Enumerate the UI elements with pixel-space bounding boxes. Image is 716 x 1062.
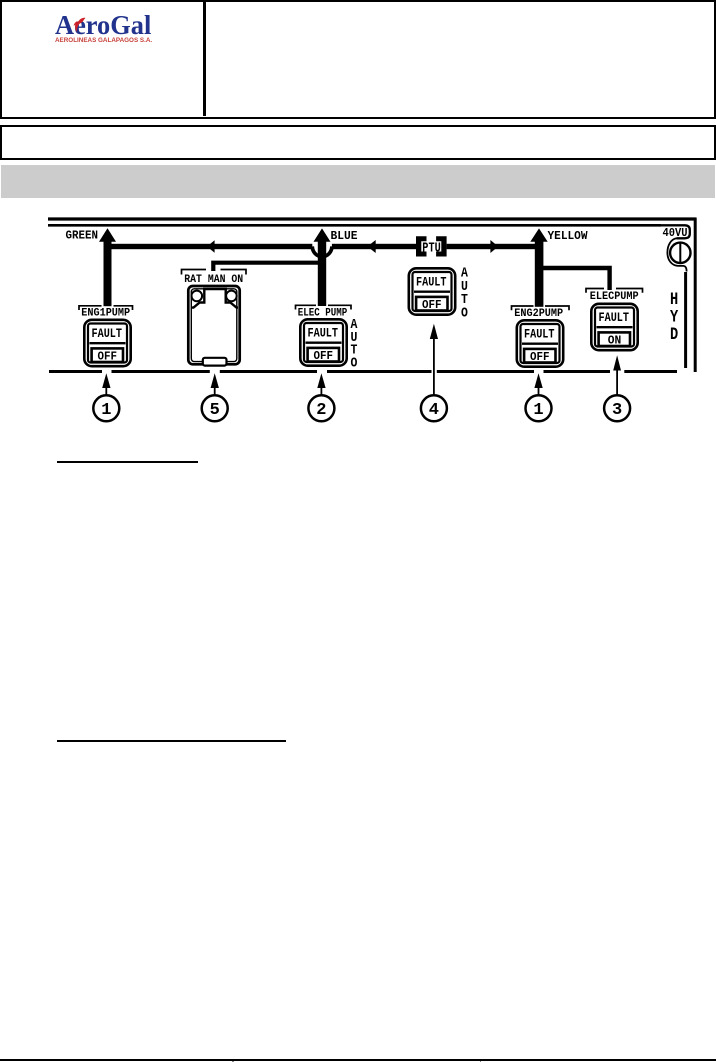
screw slot bbox=[679, 243, 681, 263]
RAT MAN ON label tag bbox=[182, 270, 247, 275]
screw outer ring bbox=[667, 238, 686, 271]
panel right border bbox=[694, 218, 697, 373]
underline heading 1 (blank) bbox=[57, 461, 199, 463]
svg-text:2: 2 bbox=[316, 401, 326, 420]
svg-text:OFF: OFF bbox=[314, 349, 334, 363]
callout arrow 2 (ELEC PUMP) bbox=[317, 373, 325, 388]
svg-text:PTU: PTU bbox=[422, 241, 441, 256]
svg-text:O: O bbox=[351, 356, 358, 371]
callout arrow 4 (PTU) bbox=[430, 324, 438, 339]
RAT guard screw left bbox=[192, 291, 203, 302]
svg-text:OFF: OFF bbox=[98, 349, 118, 363]
pushbutton ENG2PUMP bbox=[517, 320, 563, 366]
svg-text:YELLOW: YELLOW bbox=[548, 229, 589, 243]
svg-text:3: 3 bbox=[612, 401, 622, 420]
svg-text:4: 4 bbox=[429, 401, 439, 420]
svg-text:OFF: OFF bbox=[422, 298, 442, 312]
main horizontal wire segment PTU-yellow bbox=[447, 244, 539, 249]
svg-text:40VU: 40VU bbox=[663, 226, 688, 240]
svg-text:ELEC PUMP: ELEC PUMP bbox=[298, 308, 348, 320]
svg-text:D: D bbox=[670, 325, 678, 345]
header table outer border bbox=[0, 0, 716, 119]
underline heading 2 (blank) bbox=[57, 740, 286, 742]
callout circle 1 bbox=[93, 395, 119, 421]
callout arrow 5 (RAT) bbox=[211, 373, 219, 388]
gray bar bbox=[1, 165, 715, 198]
svg-text:FAULT: FAULT bbox=[308, 325, 339, 340]
panel top border inner line bbox=[48, 224, 661, 227]
arrowhead pointing right (PTU right) bbox=[490, 240, 498, 253]
callout arrow 1 (ENG1PUMP) bbox=[102, 373, 110, 388]
ENG1PUMP label tag bbox=[79, 306, 133, 310]
arrowhead pointing left (PTU left) bbox=[367, 240, 375, 253]
header table column divider bbox=[203, 2, 206, 116]
svg-text:FAULT: FAULT bbox=[416, 274, 447, 289]
svg-text:FAULT: FAULT bbox=[599, 310, 630, 325]
svg-text:BLUE: BLUE bbox=[331, 229, 358, 243]
svg-text:OFF: OFF bbox=[530, 350, 550, 364]
svg-text:ENG1PUMP: ENG1PUMP bbox=[81, 308, 130, 320]
svg-text:FAULT: FAULT bbox=[524, 326, 555, 341]
callout circle 5 bbox=[202, 395, 228, 421]
footer table top border bbox=[0, 1059, 716, 1062]
callout arrow 1b (ENG2PUMP) bbox=[534, 373, 542, 388]
panel bottom border (with gaps for arrows) bbox=[49, 370, 677, 373]
yellow branch wire to ELECPUMP bbox=[539, 268, 610, 290]
svg-text:ENG2PUMP: ENG2PUMP bbox=[514, 308, 563, 320]
wire hop over blue line bbox=[312, 246, 332, 256]
panel inner right vertical line bbox=[684, 272, 687, 368]
svg-text:O: O bbox=[461, 307, 468, 322]
pushbutton ENG1PUMP bbox=[84, 320, 130, 366]
svg-text:ELECPUMP: ELECPUMP bbox=[590, 291, 639, 303]
PTU right bracket bbox=[436, 236, 447, 256]
blue supply wire (thick vertical) bbox=[318, 238, 326, 306]
callout arrow 3 (ELECPUMP) bbox=[613, 355, 621, 370]
title box (empty) bbox=[0, 125, 716, 160]
RAT guard screw right bbox=[226, 291, 237, 302]
panel top border outer line bbox=[48, 217, 696, 220]
svg-text:5: 5 bbox=[210, 401, 220, 420]
green supply wire (thick vertical) bbox=[104, 238, 112, 306]
screw head circle bbox=[670, 243, 690, 263]
RAT wire to blue line bbox=[213, 263, 322, 271]
callout circle 4 bbox=[421, 395, 447, 421]
PTU left bracket bbox=[416, 236, 427, 256]
ELECPUMP label tag bbox=[586, 289, 643, 293]
logo subtitle bbox=[55, 38, 215, 44]
green wire arrowhead bbox=[99, 228, 116, 242]
svg-text:1: 1 bbox=[533, 401, 543, 420]
logo bird bbox=[72, 16, 86, 33]
svg-text:1: 1 bbox=[101, 401, 111, 420]
RAT guard plate flange left bbox=[192, 289, 204, 308]
pushbutton ELECPUMP bbox=[591, 304, 637, 350]
svg-text:RAT MAN ON: RAT MAN ON bbox=[184, 274, 243, 286]
ELEC PUMP label tag bbox=[296, 305, 352, 309]
blue wire arrowhead bbox=[314, 228, 331, 241]
callout circle 1b bbox=[526, 395, 552, 421]
svg-text:GREEN: GREEN bbox=[66, 228, 99, 242]
ENG2PUMP label tag bbox=[512, 306, 570, 310]
svg-text:ON: ON bbox=[608, 333, 622, 347]
main horizontal wire segment blue-PTU bbox=[332, 244, 416, 249]
yellow wire arrowhead bbox=[530, 228, 547, 241]
main horizontal wire segment green-blue bbox=[108, 244, 313, 249]
40VU label box bbox=[661, 225, 690, 238]
AeroGal logo wordmark bbox=[55, 11, 199, 41]
RAT guard top plate bbox=[203, 288, 227, 291]
svg-text:FAULT: FAULT bbox=[92, 326, 123, 341]
RAT guard latch bbox=[203, 358, 227, 366]
RAT guard switch body bbox=[188, 286, 239, 364]
RAT guard plate flange right bbox=[226, 289, 238, 308]
pushbutton ELEC PUMP bbox=[300, 319, 346, 365]
arrowhead pointing left (green side) bbox=[207, 240, 215, 253]
callout circle 2 bbox=[308, 395, 334, 421]
yellow supply wire (thick vertical) bbox=[535, 238, 544, 307]
callout circle 3 bbox=[604, 395, 630, 421]
pushbutton PTU bbox=[409, 268, 455, 314]
